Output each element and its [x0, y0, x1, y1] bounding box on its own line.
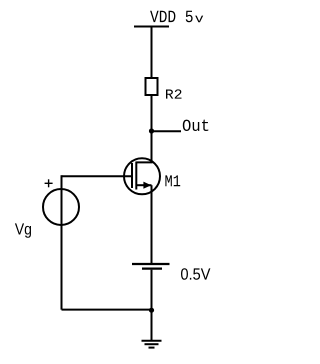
M1 channel bar	[135, 162, 137, 190]
source Vg circle	[43, 189, 79, 225]
wire gate lead	[62, 175, 133, 177]
resistor R2	[146, 78, 158, 95]
transistor M1	[124, 158, 160, 194]
label 0.5V	[181, 268, 210, 280]
wire Out stub	[152, 130, 182, 132]
node Out junction dot	[149, 128, 154, 133]
label v	[195, 16, 203, 23]
label Out	[183, 120, 209, 131]
plus sign	[45, 182, 53, 184]
power rail VDD bar	[134, 26, 169, 28]
wire battery to bottom node	[151, 270, 153, 340]
wire VDD to resistor	[151, 27, 153, 79]
M1 drain link	[136, 161, 152, 163]
battery bottom plate	[142, 268, 162, 270]
wire resistor to drain	[151, 96, 153, 163]
wire Vg top	[61, 175, 63, 309]
M1 source link	[136, 184, 151, 186]
bottom junction dot	[149, 308, 154, 313]
wire source to battery	[151, 185, 153, 263]
label R2	[166, 89, 182, 98]
M1 body circle	[124, 158, 160, 194]
label Vg	[15, 223, 31, 237]
battery top plate	[132, 263, 170, 265]
M1 source arrow	[143, 182, 151, 189]
ground	[142, 341, 162, 348]
label VDD 5	[150, 11, 193, 23]
label M1	[165, 175, 180, 186]
wire bottom return	[62, 309, 152, 311]
M1 gate bar	[131, 163, 133, 188]
